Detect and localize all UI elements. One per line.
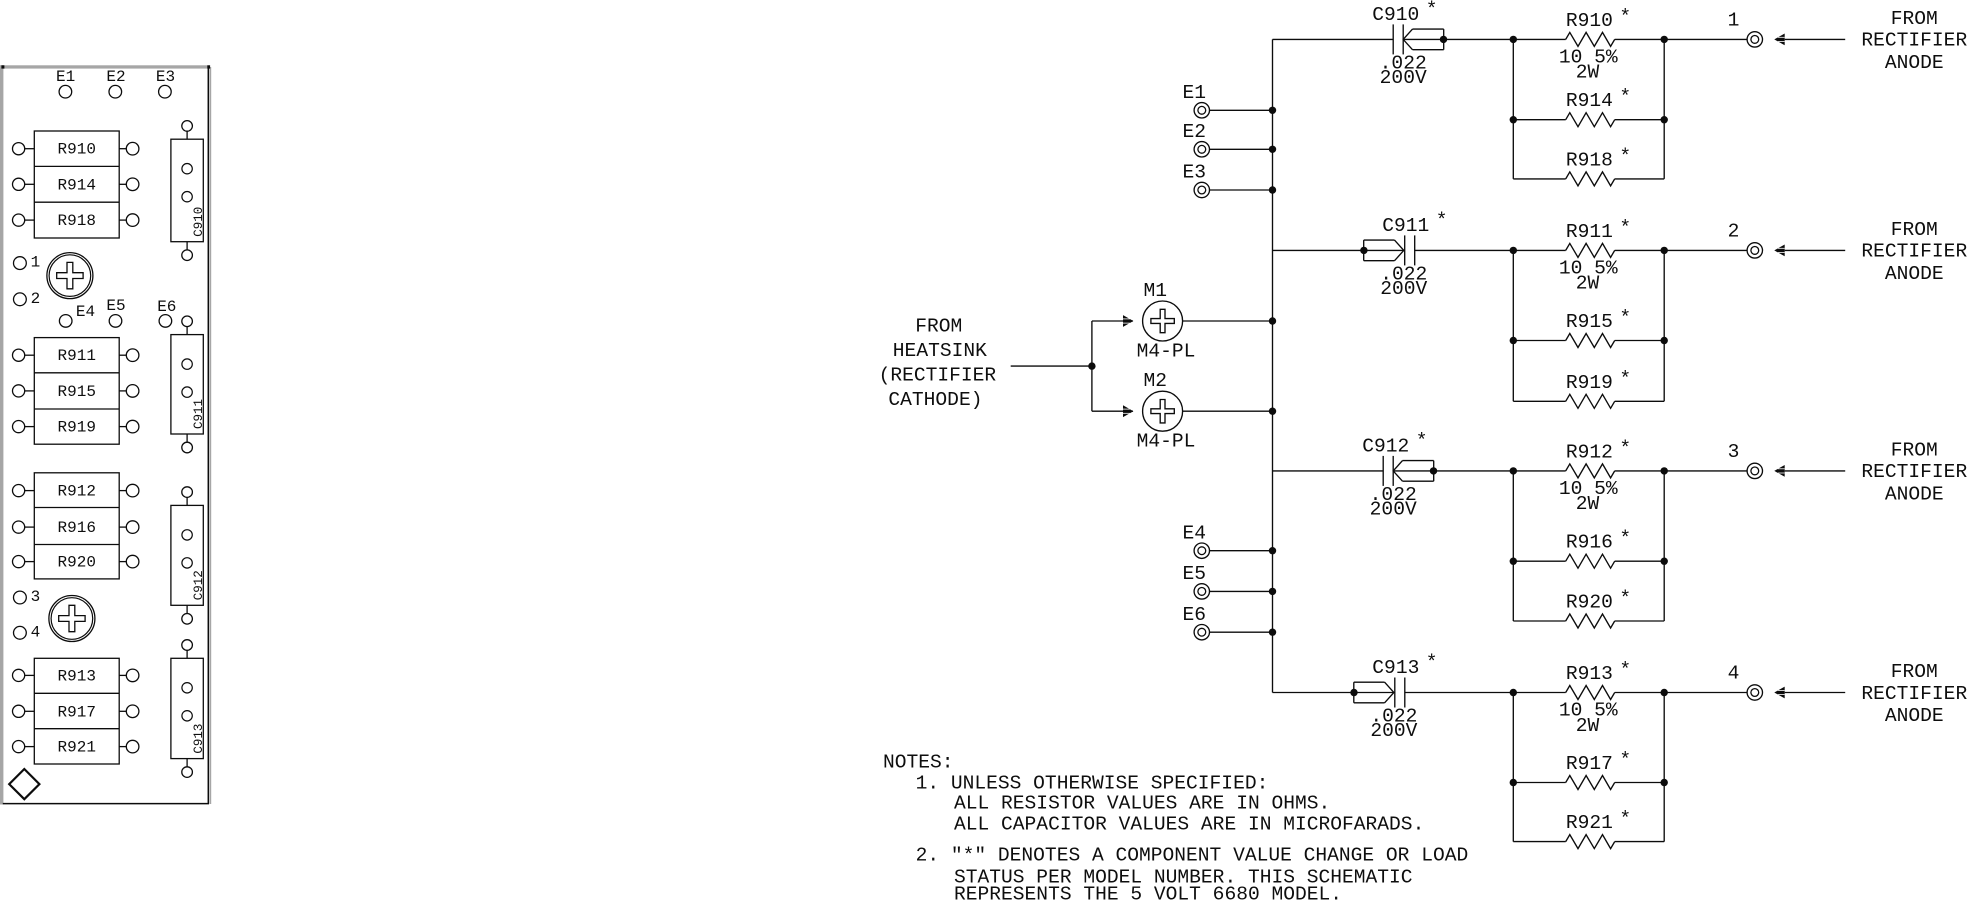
svg-text:2W: 2W xyxy=(1576,273,1600,295)
svg-text:ANODE: ANODE xyxy=(1885,484,1944,506)
junction on bus at E2 xyxy=(1269,146,1276,153)
arrow from rectifier anode 2 xyxy=(1774,245,1784,257)
svg-text:R918: R918 xyxy=(1566,149,1613,171)
capacitor C910 xyxy=(1393,24,1447,54)
svg-text:C911: C911 xyxy=(192,399,206,429)
junction right rail R916 xyxy=(1661,558,1668,565)
left pad of R917 (board) xyxy=(13,705,35,717)
right pad of R910 (board) xyxy=(119,142,139,155)
resistor R914 xyxy=(1513,86,1664,127)
wire from rectifier anode 2 xyxy=(1785,249,1846,251)
svg-text:E1: E1 xyxy=(1183,82,1207,104)
left rail of R913 bank xyxy=(1512,693,1514,842)
left rail of R912 bank xyxy=(1512,471,1514,621)
wire from rectifier anode 1 xyxy=(1785,38,1846,40)
right pad of R921 (board) xyxy=(119,740,139,753)
left pad of R914 (board) xyxy=(13,178,35,190)
capacitor C913 outline (board) xyxy=(171,640,206,778)
capacitor C912 outline (board) xyxy=(171,487,206,624)
svg-text:3: 3 xyxy=(31,588,41,606)
wire C910 to resistor bank xyxy=(1444,38,1514,40)
right rail of R912 bank xyxy=(1663,471,1665,621)
hole 1 (board) xyxy=(14,254,41,272)
svg-text:200V: 200V xyxy=(1370,499,1417,521)
left pad of R910 (board) xyxy=(13,143,35,155)
right pad of R918 (board) xyxy=(119,214,139,227)
pad E1 (board) xyxy=(56,68,75,98)
svg-text:FROM: FROM xyxy=(915,315,962,337)
junction right rail R915 xyxy=(1661,337,1668,344)
svg-text:E2: E2 xyxy=(106,68,125,86)
svg-text:R921: R921 xyxy=(58,739,96,757)
svg-text:C910: C910 xyxy=(1372,4,1419,26)
svg-text:R912: R912 xyxy=(1566,441,1613,463)
svg-text:200V: 200V xyxy=(1380,278,1427,300)
wire bank to terminal 2 xyxy=(1664,249,1747,251)
left pad of R912 (board) xyxy=(13,485,35,497)
svg-text:*: * xyxy=(1619,307,1631,329)
svg-text:RECTIFIER: RECTIFIER xyxy=(1861,461,1967,483)
arrow into M2 xyxy=(1123,405,1133,417)
right pad of R916 (board) xyxy=(119,521,139,534)
svg-text:E3: E3 xyxy=(1183,162,1207,184)
svg-text:2: 2 xyxy=(31,290,41,308)
label FROM RECTIFIER ANODE 2 xyxy=(1861,219,1967,285)
wire E1 to bus xyxy=(1210,109,1273,111)
resistor outline block R910/R914/R918 (board) xyxy=(34,131,119,238)
mounting stud M1 xyxy=(1137,280,1196,362)
terminal E6 xyxy=(1183,604,1210,640)
svg-text:R920: R920 xyxy=(58,554,96,572)
mounting screw (top, board) xyxy=(47,253,93,299)
capacitor C913 xyxy=(1350,678,1405,708)
wire branch to M2 xyxy=(1092,410,1133,412)
left pad of R916 (board) xyxy=(13,521,35,533)
label FROM RECTIFIER ANODE 1 xyxy=(1861,8,1967,74)
left pad of R920 (board) xyxy=(13,556,35,568)
junction right rail R914 xyxy=(1661,116,1668,123)
resistor outline block R913/R917/R921 (board) xyxy=(34,658,119,764)
svg-text:C912: C912 xyxy=(1362,435,1409,457)
svg-text:*: * xyxy=(1436,209,1448,231)
wire from rectifier anode 3 xyxy=(1785,470,1846,472)
svg-text:R921: R921 xyxy=(1566,812,1613,834)
vertical bus wire (heatsink net) xyxy=(1272,39,1274,692)
svg-text:ANODE: ANODE xyxy=(1885,705,1944,727)
terminal E5 xyxy=(1183,563,1210,599)
svg-text:1: 1 xyxy=(1728,10,1740,32)
svg-text:*: * xyxy=(1426,0,1438,20)
svg-text:E4: E4 xyxy=(76,303,95,321)
resistor R917 xyxy=(1513,749,1664,790)
svg-text:FROM: FROM xyxy=(1891,219,1938,241)
svg-text:R917: R917 xyxy=(58,703,96,721)
resistor R913 xyxy=(1513,659,1664,737)
svg-text:R917: R917 xyxy=(1566,753,1613,775)
junction right rail R913 xyxy=(1661,689,1668,696)
svg-text:C913: C913 xyxy=(192,724,206,754)
wire C912 to resistor bank xyxy=(1434,470,1514,472)
junction left rail R914 xyxy=(1510,116,1517,123)
svg-text:CATHODE): CATHODE) xyxy=(888,389,982,411)
resistor R916 xyxy=(1513,528,1664,569)
svg-text:4: 4 xyxy=(31,623,41,641)
svg-text:R913: R913 xyxy=(1566,663,1613,685)
svg-text:ALL RESISTOR VALUES ARE IN OHM: ALL RESISTOR VALUES ARE IN OHMS. xyxy=(954,793,1330,815)
svg-text:E6: E6 xyxy=(157,298,176,316)
svg-text:*: * xyxy=(1619,145,1631,167)
wire E3 to bus xyxy=(1210,189,1273,191)
terminal E4 xyxy=(1183,522,1210,558)
svg-text:R916: R916 xyxy=(58,519,96,537)
svg-text:R919: R919 xyxy=(58,419,96,437)
arrow into M1 xyxy=(1123,315,1133,327)
wire bank to terminal 3 xyxy=(1664,470,1747,472)
svg-text:2. "*" DENOTES A COMPONENT VAL: 2. "*" DENOTES A COMPONENT VALUE CHANGE … xyxy=(916,845,1469,867)
svg-text:M1: M1 xyxy=(1144,280,1168,302)
svg-text:FROM: FROM xyxy=(1891,8,1938,30)
svg-text:R914: R914 xyxy=(58,176,96,194)
left rail of R911 bank xyxy=(1512,250,1514,401)
arrow from rectifier anode 3 xyxy=(1774,465,1784,477)
hole 4 (board) xyxy=(14,623,41,641)
right pad of R913 (board) xyxy=(119,669,139,682)
pad E5 (board) xyxy=(106,297,125,327)
svg-text:M4-PL: M4-PL xyxy=(1137,340,1196,362)
svg-text:NOTES:: NOTES: xyxy=(883,752,954,774)
svg-text:M4-PL: M4-PL xyxy=(1137,431,1196,453)
svg-text:FROM: FROM xyxy=(1891,439,1938,461)
capacitor C910 outline (board) xyxy=(171,121,206,261)
junction right rail R912 xyxy=(1661,467,1668,474)
capacitor C911 xyxy=(1360,235,1414,265)
svg-text:R916: R916 xyxy=(1566,532,1613,554)
svg-text:C910: C910 xyxy=(192,207,206,237)
svg-text:E4: E4 xyxy=(1183,522,1207,544)
wire M2 to bus xyxy=(1183,410,1273,412)
wire E4 to bus xyxy=(1210,550,1273,552)
label FROM RECTIFIER ANODE 3 xyxy=(1861,439,1967,505)
notes text block xyxy=(883,752,1468,902)
wire from rectifier anode 4 xyxy=(1785,692,1846,694)
right pad of R911 (board) xyxy=(119,349,139,362)
junction right rail R917 xyxy=(1661,779,1668,786)
terminal E2 xyxy=(1183,121,1210,157)
svg-text:2W: 2W xyxy=(1576,493,1600,515)
svg-text:E5: E5 xyxy=(1183,563,1207,585)
right rail of R911 bank xyxy=(1663,250,1665,401)
pad E6 (board) xyxy=(157,298,176,327)
wire bus to C910 xyxy=(1273,38,1394,40)
wire M1 to bus xyxy=(1183,320,1273,322)
svg-text:3: 3 xyxy=(1728,441,1740,463)
svg-text:HEATSINK: HEATSINK xyxy=(893,340,987,362)
junction left rail R917 xyxy=(1510,779,1517,786)
svg-text:R910: R910 xyxy=(58,141,96,159)
resistor R919 xyxy=(1513,368,1664,409)
svg-text:FROM: FROM xyxy=(1891,661,1938,683)
left pad of R911 (board) xyxy=(13,349,35,361)
junction left rail R911 xyxy=(1510,247,1517,254)
resistor R912 xyxy=(1513,437,1664,515)
svg-text:*: * xyxy=(1619,528,1631,550)
junction right rail R911 xyxy=(1661,247,1668,254)
resistor R920 xyxy=(1513,588,1664,629)
svg-text:R915: R915 xyxy=(58,383,96,401)
svg-text:1. UNLESS OTHERWISE SPECIFIED:: 1. UNLESS OTHERWISE SPECIFIED: xyxy=(916,773,1269,795)
left pad of R918 (board) xyxy=(13,214,35,226)
terminal E3 xyxy=(1183,162,1210,198)
svg-text:*: * xyxy=(1619,588,1631,610)
svg-text:ANODE: ANODE xyxy=(1885,52,1944,74)
right pad of R919 (board) xyxy=(119,420,139,433)
junction on bus at M2 xyxy=(1269,408,1276,415)
diamond fiducial (board) xyxy=(9,769,39,799)
left pad of R915 (board) xyxy=(13,385,35,397)
svg-text:*: * xyxy=(1619,659,1631,681)
left pad of R921 (board) xyxy=(13,741,35,753)
wire C913 to resistor bank xyxy=(1405,692,1514,694)
svg-text:E1: E1 xyxy=(56,68,75,86)
svg-text:REPRESENTS THE 5 VOLT 6680 MOD: REPRESENTS THE 5 VOLT 6680 MODEL. xyxy=(954,884,1342,902)
svg-text:RECTIFIER: RECTIFIER xyxy=(1861,241,1967,263)
junction left rail R915 xyxy=(1510,337,1517,344)
svg-text:*: * xyxy=(1619,808,1631,830)
capacitor C912 xyxy=(1383,456,1437,486)
svg-text:R910: R910 xyxy=(1566,10,1613,32)
wire E5 to bus xyxy=(1210,590,1273,592)
left pad of R913 (board) xyxy=(13,669,35,681)
svg-text:R915: R915 xyxy=(1566,311,1613,333)
arrow from rectifier anode 4 xyxy=(1774,687,1784,699)
right pad of R917 (board) xyxy=(119,705,139,718)
junction left rail R916 xyxy=(1510,558,1517,565)
right pad of R920 (board) xyxy=(119,555,139,568)
mounting screw (bottom, board) xyxy=(49,596,95,642)
svg-text:E2: E2 xyxy=(1183,121,1207,143)
svg-text:RECTIFIER: RECTIFIER xyxy=(1861,683,1967,705)
svg-text:RECTIFIER: RECTIFIER xyxy=(1861,30,1967,52)
resistor R918 xyxy=(1513,145,1664,186)
wire bus to C912 xyxy=(1273,470,1384,472)
right pad of R914 (board) xyxy=(119,178,139,191)
arrow from rectifier anode 1 xyxy=(1774,34,1784,46)
junction right rail R910 xyxy=(1661,36,1668,43)
pad E3 (board) xyxy=(156,68,175,98)
svg-text:*: * xyxy=(1619,217,1631,239)
pad E4 (board) xyxy=(59,303,95,327)
junction left rail R913 xyxy=(1510,689,1517,696)
svg-text:R911: R911 xyxy=(58,347,96,365)
right pad of R912 (board) xyxy=(119,484,139,497)
label C910 .022 200V xyxy=(1372,0,1437,89)
label C912 .022 200V xyxy=(1362,430,1427,521)
junction at heatsink branch xyxy=(1088,362,1095,369)
wire bank to terminal 4 xyxy=(1664,692,1747,694)
resistor R910 xyxy=(1513,6,1664,84)
right rail of R910 bank xyxy=(1663,39,1665,179)
wire branch vertical xyxy=(1091,321,1093,411)
right pad of R915 (board) xyxy=(119,385,139,398)
junction on bus at E6 xyxy=(1269,629,1276,636)
wire bank to terminal 1 xyxy=(1664,38,1747,40)
left rail of R910 bank xyxy=(1512,39,1514,179)
svg-text:R918: R918 xyxy=(58,212,96,230)
svg-text:ALL CAPACITOR VALUES ARE IN MI: ALL CAPACITOR VALUES ARE IN MICROFARADS. xyxy=(954,813,1424,835)
hole 3 (board) xyxy=(14,588,41,606)
pad E2 (board) xyxy=(106,68,125,98)
terminal 4 xyxy=(1728,663,1763,701)
wire branch to M1 xyxy=(1092,320,1133,322)
svg-text:2: 2 xyxy=(1728,221,1740,243)
svg-text:2W: 2W xyxy=(1576,715,1600,737)
junction on bus at E4 xyxy=(1269,547,1276,554)
junction on bus at M1 xyxy=(1269,317,1276,324)
svg-text:*: * xyxy=(1426,652,1438,674)
wire E2 to bus xyxy=(1210,148,1273,150)
svg-text:R911: R911 xyxy=(1566,221,1613,243)
svg-text:2W: 2W xyxy=(1576,62,1600,84)
junction on bus at E5 xyxy=(1269,588,1276,595)
svg-text:200V: 200V xyxy=(1370,720,1417,742)
svg-text:C911: C911 xyxy=(1382,215,1429,237)
terminal 3 xyxy=(1728,441,1763,478)
wire bus to C911 xyxy=(1273,249,1364,251)
svg-text:*: * xyxy=(1619,749,1631,771)
right rail of R913 bank xyxy=(1663,693,1665,842)
svg-text:*: * xyxy=(1619,368,1631,390)
svg-text:1: 1 xyxy=(31,254,41,272)
svg-text:4: 4 xyxy=(1728,663,1740,685)
mounting stud M2 xyxy=(1137,370,1196,452)
svg-text:R914: R914 xyxy=(1566,90,1613,112)
label C913 .022 200V xyxy=(1370,652,1437,743)
svg-text:R919: R919 xyxy=(1566,372,1613,394)
svg-text:R912: R912 xyxy=(58,483,96,501)
label FROM RECTIFIER ANODE 4 xyxy=(1861,661,1967,727)
junction on bus at E1 xyxy=(1269,107,1276,114)
svg-text:C912: C912 xyxy=(192,570,206,600)
svg-text:*: * xyxy=(1619,6,1631,28)
junction on bus at E3 xyxy=(1269,186,1276,193)
terminal E1 xyxy=(1183,82,1210,118)
svg-text:R920: R920 xyxy=(1566,592,1613,614)
junction left rail R910 xyxy=(1510,36,1517,43)
wire heatsink stub to branch xyxy=(1011,365,1092,367)
terminal 1 xyxy=(1728,10,1763,48)
resistor outline block R911/R915/R919 (board) xyxy=(34,338,119,445)
hole 2 (board) xyxy=(14,290,41,308)
svg-text:*: * xyxy=(1619,437,1631,459)
svg-text:E3: E3 xyxy=(156,68,175,86)
resistor R911 xyxy=(1513,217,1664,295)
junction left rail R912 xyxy=(1510,467,1517,474)
wire bus to C913 xyxy=(1273,692,1354,694)
resistor R921 xyxy=(1513,808,1664,849)
left pad of R919 (board) xyxy=(13,421,35,433)
svg-text:E5: E5 xyxy=(106,297,125,315)
svg-text:R913: R913 xyxy=(58,667,96,685)
svg-text:(RECTIFIER: (RECTIFIER xyxy=(879,364,997,386)
label C911 .022 200V xyxy=(1380,209,1447,300)
resistor outline block R912/R916/R920 (board) xyxy=(34,473,119,579)
svg-text:ANODE: ANODE xyxy=(1885,263,1944,285)
svg-text:M2: M2 xyxy=(1144,370,1168,392)
terminal 2 xyxy=(1728,221,1763,259)
capacitor C911 outline (board) xyxy=(171,316,206,453)
svg-text:E6: E6 xyxy=(1183,604,1207,626)
wire E6 to bus xyxy=(1210,631,1273,633)
PCB board outline (component side silkscreen panel) xyxy=(0,65,211,804)
resistor R915 xyxy=(1513,307,1664,348)
label FROM HEATSINK (RECTIFIER CATHODE) xyxy=(879,315,997,411)
svg-text:*: * xyxy=(1416,430,1428,452)
svg-text:*: * xyxy=(1619,86,1631,108)
wire C911 to resistor bank xyxy=(1415,249,1514,251)
svg-text:C913: C913 xyxy=(1372,657,1419,679)
svg-text:200V: 200V xyxy=(1380,67,1427,89)
